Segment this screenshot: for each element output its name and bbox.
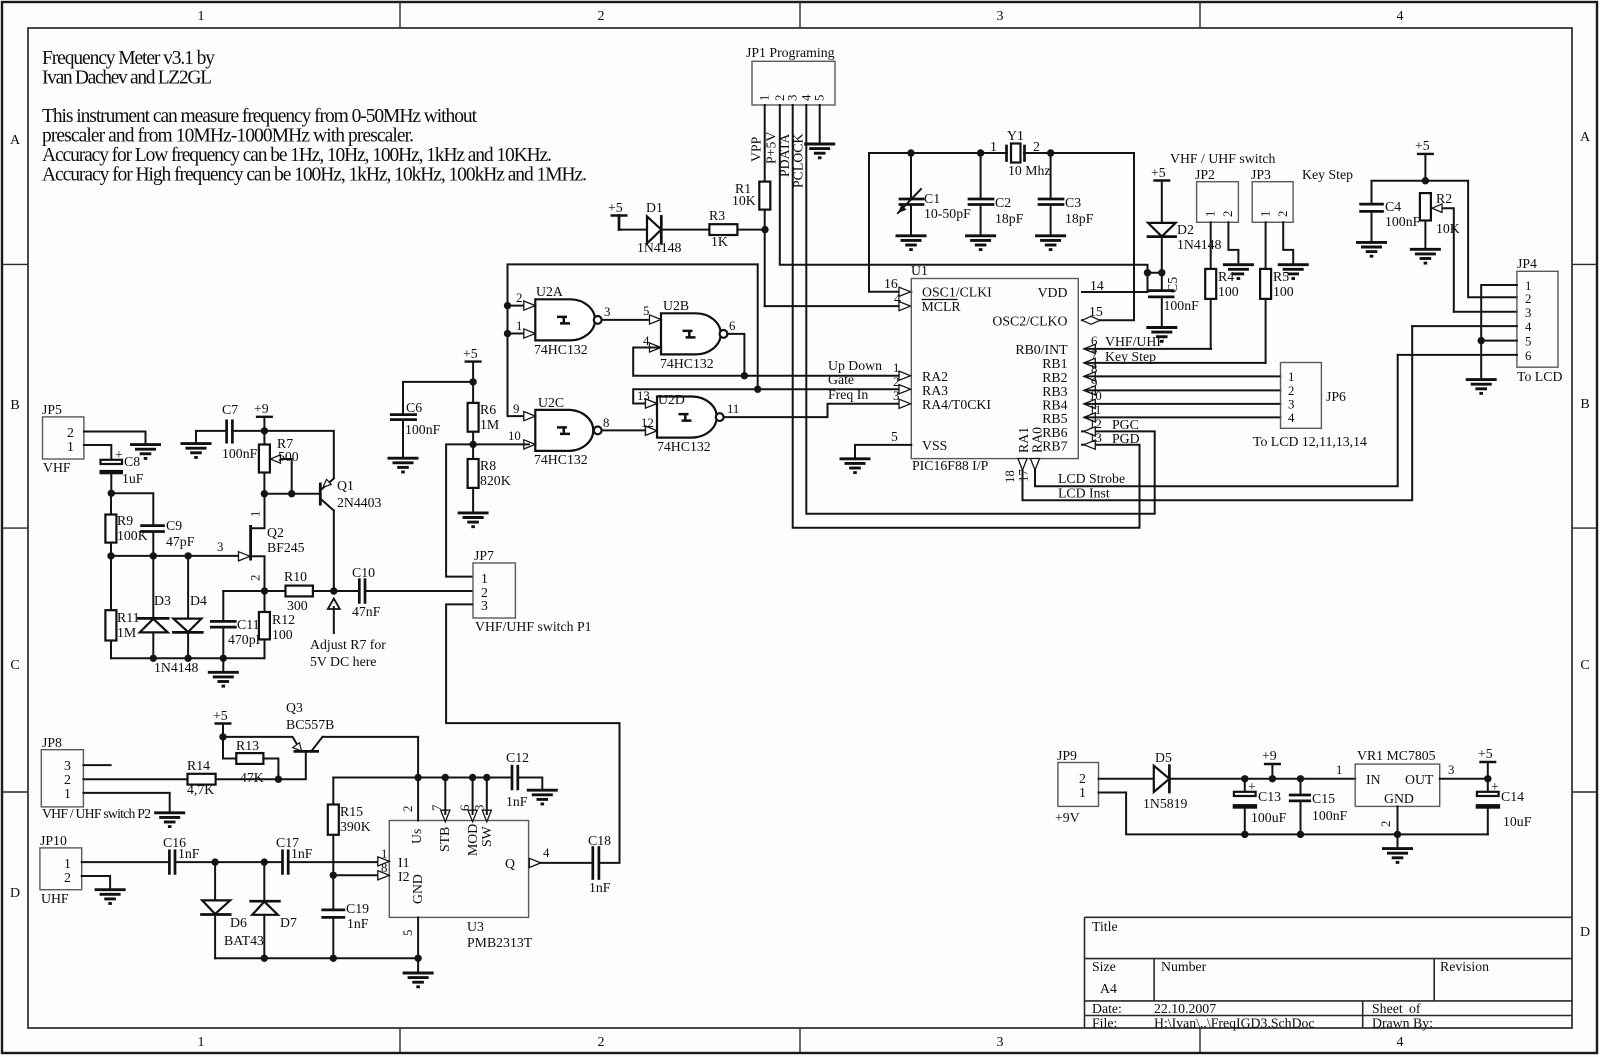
svg-text:R9: R9	[117, 513, 133, 528]
power +5 at R2	[1415, 138, 1434, 181]
wire JP10 pin1 to C16	[82, 861, 170, 863]
svg-text:18: 18	[1003, 470, 1017, 483]
svg-text:A: A	[1580, 130, 1591, 145]
svg-text:4: 4	[1288, 411, 1295, 425]
op-amp U2B 74HC132 NAND gate	[643, 298, 736, 371]
wire R14 node to Q3 base	[278, 753, 305, 780]
svg-text:6: 6	[1091, 334, 1098, 348]
ground at R2	[1410, 249, 1441, 263]
ground at C4	[1356, 242, 1387, 256]
svg-text:U3: U3	[467, 919, 484, 934]
svg-text:11: 11	[1089, 403, 1101, 417]
svg-text:D7: D7	[280, 915, 297, 930]
svg-text:Q: Q	[505, 856, 515, 871]
pin RB3 arrow and wire to JP6 pin2	[1084, 376, 1281, 395]
svg-text:Up Down: Up Down	[828, 358, 882, 373]
svg-text:To LCD 12,11,13,14: To LCD 12,11,13,14	[1253, 434, 1367, 449]
svg-text:VHF/UHF: VHF/UHF	[1105, 334, 1164, 349]
svg-text:A4: A4	[1100, 981, 1117, 996]
svg-text:RA2: RA2	[922, 369, 948, 384]
diode D3 1N4148	[138, 556, 171, 658]
svg-text:C1: C1	[924, 191, 940, 206]
svg-text:1uF: 1uF	[122, 471, 144, 486]
svg-text:9: 9	[513, 402, 519, 416]
svg-text:2: 2	[1276, 211, 1290, 217]
diode D6 BAT43	[202, 862, 264, 958]
svg-text:1N4148: 1N4148	[637, 240, 682, 255]
wire I2 from R15 node to U3	[333, 847, 387, 875]
wire U2A output to U2B pin5	[602, 304, 654, 320]
zone letters left	[10, 133, 21, 901]
svg-text:3: 3	[481, 598, 488, 613]
node R6 R8 junction	[469, 441, 476, 448]
svg-text:R2: R2	[1436, 191, 1452, 206]
svg-text:3: 3	[997, 1035, 1004, 1050]
svg-text:VHF: VHF	[43, 460, 71, 475]
resistor R13 47K	[223, 737, 278, 785]
ground at C5	[1146, 328, 1177, 342]
svg-text:Gate: Gate	[828, 372, 854, 387]
node C8 bottom junction	[108, 490, 115, 497]
resistor R7 500 potentiometer	[259, 431, 299, 494]
svg-text:Drawn By:: Drawn By:	[1372, 1016, 1433, 1031]
svg-text:Accuracy for Low frequency can: Accuracy for Low frequency can be 1Hz, 1…	[42, 145, 552, 166]
svg-text:47nF: 47nF	[352, 604, 381, 619]
wire SW pin3 to rail	[486, 778, 488, 815]
svg-text:C11: C11	[237, 617, 260, 632]
svg-text:1N4148: 1N4148	[154, 660, 199, 675]
svg-text:1: 1	[1336, 763, 1342, 777]
connector JP6 To LCD 12,11,13,14	[1253, 363, 1367, 450]
wire U2B feedback output 6 to pin4 and Up Down to RA2	[633, 334, 910, 380]
capacitor C4 100nF	[1361, 199, 1421, 242]
ground at C6	[388, 458, 419, 472]
svg-text:VHF / UHF switch: VHF / UHF switch	[1170, 151, 1276, 166]
ground at C2	[965, 236, 996, 250]
svg-text:R4: R4	[1218, 269, 1234, 284]
svg-text:2: 2	[64, 772, 71, 787]
op-amp U3 PMB2313T prescaler	[378, 804, 541, 950]
adjust arrow annotation	[310, 599, 386, 670]
wire U3 supply rail	[333, 774, 512, 781]
wire JP3 pin1 to R5	[1265, 222, 1267, 269]
node MCLR junction dot	[761, 226, 768, 233]
svg-text:R14: R14	[187, 758, 210, 773]
svg-text:D4: D4	[190, 593, 207, 608]
wire R6 R8 node to U2C pin10	[473, 443, 529, 445]
svg-text:+5: +5	[213, 708, 228, 723]
svg-text:Ivan Dachev and LZ2GL: Ivan Dachev and LZ2GL	[42, 68, 212, 89]
svg-text:2N4403: 2N4403	[337, 495, 382, 510]
svg-text:C4: C4	[1385, 199, 1401, 214]
wire U3 Q output pin4 to C18	[540, 846, 593, 863]
svg-text:2: 2	[773, 95, 787, 101]
wire PSU bottom rail	[1099, 793, 1488, 849]
svg-text:2: 2	[1525, 292, 1531, 306]
svg-text:1: 1	[198, 9, 205, 24]
svg-text:Us: Us	[409, 829, 424, 844]
svg-text:4: 4	[643, 334, 650, 348]
svg-text:Accuracy for High frequency ca: Accuracy for High frequency can be 100Hz…	[42, 165, 587, 186]
svg-text:D3: D3	[154, 593, 171, 608]
svg-text:+: +	[1491, 779, 1499, 794]
svg-text:+5: +5	[1415, 138, 1430, 153]
node R13 R14 junction	[275, 776, 282, 783]
svg-text:2: 2	[64, 870, 71, 885]
wire U2D output 11 Freq In to RA4	[724, 387, 910, 417]
svg-text:R8: R8	[480, 458, 496, 473]
svg-text:1: 1	[1079, 785, 1086, 800]
ground at JP4	[1466, 380, 1497, 394]
diode D4 1N4148	[154, 556, 207, 675]
wire crystal rail and OSC1 loop	[869, 153, 1134, 320]
wire D2 cathode to +5V node	[1161, 237, 1163, 273]
wire U3 GND pin5 to ground rail	[417, 917, 419, 958]
svg-text:6: 6	[458, 804, 472, 811]
resistor R6 1M	[468, 382, 500, 445]
svg-text:D2: D2	[1177, 222, 1194, 237]
node D6 junction	[211, 858, 218, 865]
svg-text:GND: GND	[410, 874, 425, 904]
wire Gate net to RA3 and U2D pin13	[633, 264, 910, 408]
ground at C1	[896, 236, 927, 250]
svg-text:U2D: U2D	[658, 392, 685, 407]
wire U2C output 8 to U2D pin12	[602, 416, 657, 435]
svg-text:C8: C8	[124, 454, 140, 469]
wire STB pin7 to rail	[444, 778, 446, 815]
diode D7 BAT43	[251, 862, 297, 958]
svg-text:VSS: VSS	[922, 438, 947, 453]
svg-text:Date:: Date:	[1092, 1001, 1122, 1016]
svg-text:10: 10	[1089, 389, 1102, 403]
svg-text:VDD: VDD	[1038, 285, 1068, 300]
svg-text:RA3: RA3	[922, 383, 948, 398]
zone numbers top	[198, 9, 1404, 24]
node +5 Q3 junction	[219, 733, 226, 740]
node crystal rail junction C1	[907, 149, 914, 156]
svg-text:prescaler and from 10MHz-1000M: prescaler and from 10MHz-1000MHz with pr…	[42, 126, 414, 147]
svg-text:I1: I1	[398, 855, 410, 870]
svg-text:11: 11	[727, 402, 739, 416]
svg-text:RB5: RB5	[1042, 411, 1067, 426]
svg-text:Frequency Meter v3.1 by: Frequency Meter v3.1 by	[42, 48, 215, 69]
svg-text:1: 1	[516, 319, 522, 333]
svg-text:C5: C5	[1165, 277, 1180, 293]
power +5 at Q3	[213, 708, 232, 737]
node C10 junction	[330, 587, 337, 594]
wire +5 node to C4	[1372, 181, 1426, 204]
svg-text:UHF: UHF	[41, 891, 69, 906]
svg-text:JP9: JP9	[1057, 748, 1077, 763]
connector JP9 +9V input	[1055, 748, 1099, 825]
svg-text:1: 1	[1259, 211, 1273, 217]
svg-text:2: 2	[893, 375, 899, 389]
wire JP2 pin2 to ground	[1228, 222, 1238, 264]
svg-text:3: 3	[1288, 398, 1294, 412]
pin RA0 pin17 arrow	[1017, 459, 1040, 483]
ground at JP3 pin2	[1278, 265, 1309, 279]
svg-text:1nF: 1nF	[589, 880, 611, 895]
power +9 at C7	[254, 401, 273, 431]
svg-text:100nF: 100nF	[1385, 214, 1421, 229]
zone numbers bottom	[198, 1035, 1404, 1050]
svg-text:3: 3	[893, 389, 899, 403]
svg-text:D: D	[1580, 925, 1590, 940]
svg-text:10-50pF: 10-50pF	[924, 206, 971, 221]
diode D2 1N4148	[1148, 222, 1222, 252]
svg-text:LCD Inst: LCD Inst	[1058, 486, 1110, 501]
svg-text:100: 100	[1273, 284, 1294, 299]
svg-text:PCLOCK: PCLOCK	[791, 134, 806, 188]
svg-text:2: 2	[598, 1035, 605, 1050]
node crystal rail junction C3	[1047, 149, 1054, 156]
svg-text:2: 2	[1288, 384, 1294, 398]
svg-text:100: 100	[272, 627, 293, 642]
wire gate net from RA3 line to U2A inputs and U2C pin9	[508, 264, 758, 416]
wire LCD Inst from RA1 to JP4 pin4	[1023, 326, 1413, 500]
svg-text:1: 1	[1288, 370, 1294, 384]
connector JP7 VHF/UHF switch P1	[473, 548, 592, 634]
crystal Y1 10 Mhz	[990, 128, 1051, 178]
svg-text:MCLR: MCLR	[922, 299, 962, 314]
svg-text:R12: R12	[272, 612, 295, 627]
wire D6 node to D7 node	[215, 858, 268, 865]
capacitor C3 18pF	[1039, 153, 1094, 236]
svg-text:Y1: Y1	[1007, 128, 1024, 143]
ground at VSS	[840, 459, 871, 473]
svg-text:5: 5	[401, 930, 415, 936]
node R15 I2 junction	[330, 872, 337, 879]
svg-text:4: 4	[1525, 320, 1532, 334]
op-amp U2C 74HC132 NAND gate	[508, 395, 609, 467]
resistor R8 820K	[468, 444, 511, 513]
capacitor C9 47pF	[142, 518, 195, 556]
transistor Q2 BF245 JFET	[249, 494, 305, 591]
svg-text:STB: STB	[437, 827, 452, 852]
svg-text:Key Step: Key Step	[1302, 167, 1353, 182]
svg-text:2: 2	[67, 425, 74, 440]
resistor R2 10K potentiometer	[1420, 191, 1460, 312]
wire JP1 pin4 PCLOCK down and right to RB6 PGC	[791, 105, 1155, 514]
svg-text:RB2: RB2	[1042, 370, 1067, 385]
ground at JP8 pin1	[154, 813, 185, 827]
node +5V VDD junction dots	[1144, 269, 1166, 276]
svg-text:16: 16	[884, 276, 898, 291]
capacitor C2 18pF	[969, 153, 1024, 236]
border zone ticks left	[2, 264, 28, 792]
resistor R4 100	[1205, 269, 1239, 349]
wire R1 bottom to MCLR junction	[737, 210, 764, 307]
svg-text:LCD Strobe: LCD Strobe	[1058, 471, 1125, 486]
svg-text:3: 3	[473, 805, 487, 811]
svg-text:4: 4	[1397, 9, 1404, 24]
svg-text:+5: +5	[1478, 746, 1493, 761]
capacitor C19 1nF	[323, 875, 369, 958]
svg-text:10K: 10K	[1436, 221, 1460, 236]
svg-text:GND: GND	[1384, 791, 1414, 806]
svg-text:7: 7	[430, 804, 444, 811]
svg-text:A: A	[10, 133, 21, 148]
svg-text:Size: Size	[1092, 959, 1116, 974]
border zone ticks bottom	[400, 1028, 1200, 1053]
op-amp U2D 74HC132 NAND gate	[646, 392, 724, 454]
svg-text:1nF: 1nF	[291, 846, 313, 861]
svg-text:2: 2	[249, 575, 263, 581]
resistor R14 4,7K	[187, 758, 278, 797]
svg-text:C13: C13	[1258, 789, 1281, 804]
resistor R1 10K	[732, 181, 770, 210]
svg-text:+5: +5	[463, 346, 478, 361]
svg-text:2: 2	[401, 806, 415, 812]
svg-text:C: C	[10, 658, 19, 673]
svg-text:+: +	[1248, 779, 1256, 794]
connector JP1 Programing	[746, 45, 835, 105]
svg-text:Key Step: Key Step	[1105, 349, 1156, 364]
svg-text:3: 3	[64, 758, 71, 773]
svg-text:74HC132: 74HC132	[534, 342, 588, 357]
wire JP4 pin1 and pin5 ground vertical	[1478, 285, 1517, 380]
svg-text:1N4148: 1N4148	[1177, 237, 1222, 252]
capacitor C8 1uF polarized	[100, 447, 144, 493]
svg-text:15: 15	[1089, 304, 1103, 319]
svg-text:3: 3	[604, 305, 610, 319]
svg-text:R10: R10	[284, 569, 307, 584]
wire node 3 line to Q2 gate	[107, 540, 250, 561]
wire VSS pin5 to ground	[855, 429, 911, 459]
svg-text:Q1: Q1	[337, 478, 354, 493]
svg-text:H:\Ivan\..\FreqIGD3.SchDoc: H:\Ivan\..\FreqIGD3.SchDoc	[1154, 1016, 1315, 1031]
wire +5 node to JP4 pin2	[1425, 181, 1517, 298]
svg-text:1: 1	[198, 1035, 205, 1050]
svg-text:Title: Title	[1092, 919, 1118, 934]
svg-text:4: 4	[543, 846, 550, 860]
wire JP1 pin3 PDATA down and right to RB7 PGD	[777, 105, 1140, 528]
svg-text:R6: R6	[480, 402, 496, 417]
ground at C3	[1035, 236, 1066, 250]
capacitor C15 100nF	[1290, 779, 1347, 835]
svg-text:B: B	[10, 398, 19, 413]
power +9 at VR1	[1262, 748, 1281, 779]
diode D1 1N4148	[637, 200, 682, 255]
wire Q1 base node	[261, 490, 319, 497]
wire U3 bottom ground rail	[215, 955, 422, 973]
ground at U3	[403, 973, 434, 987]
diode D5 1N5819	[1143, 750, 1188, 811]
svg-text:PGD: PGD	[1112, 431, 1140, 446]
svg-text:D5: D5	[1155, 750, 1172, 765]
connector JP8 VHF/UHF switch P2	[41, 735, 151, 821]
svg-text:1N5819: 1N5819	[1143, 796, 1188, 811]
svg-text:5: 5	[813, 95, 827, 101]
wire JP8 pin2 to R14	[83, 778, 187, 780]
svg-text:BC557B: BC557B	[286, 717, 334, 732]
svg-text:820K: 820K	[480, 473, 511, 488]
svg-text:D: D	[10, 886, 20, 901]
svg-text:10K: 10K	[732, 193, 756, 208]
border zone ticks top	[400, 2, 1200, 28]
svg-text:5: 5	[643, 304, 649, 318]
wire JP7 pin3 net to C18	[446, 604, 619, 863]
transistor Q3 BC557B PNP	[223, 700, 334, 751]
power +5 at D1	[608, 200, 628, 230]
svg-text:U2C: U2C	[538, 395, 564, 410]
pin RB1 arrow and wire to R5	[1084, 348, 1266, 368]
svg-text:1: 1	[249, 511, 263, 517]
svg-text:1nF: 1nF	[347, 916, 369, 931]
svg-text:2: 2	[1033, 139, 1040, 154]
svg-text:+5: +5	[608, 200, 623, 215]
svg-text:Sheet: Sheet	[1372, 1001, 1403, 1016]
svg-text:2: 2	[1079, 771, 1086, 786]
svg-text:BAT43: BAT43	[224, 933, 264, 948]
transistor Q1 2N4403 PNP	[320, 478, 381, 511]
connector JP3 Key Step	[1251, 167, 1353, 222]
svg-text:5: 5	[891, 429, 898, 444]
svg-text:9: 9	[1091, 376, 1097, 390]
capacitor C13 100uF polarized	[1233, 779, 1287, 835]
pin RB4 arrow and wire to JP6 pin3	[1084, 389, 1281, 409]
wire JP1 pin1 VPP to R1	[749, 105, 765, 182]
wire VR1 out to +5	[1440, 763, 1492, 783]
svg-text:U1: U1	[911, 263, 928, 278]
node crystal rail junction C2	[977, 149, 984, 156]
ground at C12	[527, 790, 558, 804]
svg-text:R5: R5	[1273, 269, 1289, 284]
svg-text:C14: C14	[1501, 789, 1524, 804]
resistor R12 100	[259, 591, 295, 658]
wire MOD pin6 to rail	[472, 778, 474, 815]
svg-text:VPP: VPP	[749, 136, 764, 162]
resistor R9 100K	[105, 493, 147, 556]
resistor R3 1K	[709, 208, 737, 249]
svg-text:14: 14	[1090, 278, 1104, 293]
svg-text:C15: C15	[1312, 791, 1335, 806]
svg-text:18pF: 18pF	[1065, 211, 1094, 226]
svg-text:74HC132: 74HC132	[534, 452, 588, 467]
svg-text:1nF: 1nF	[506, 794, 528, 809]
svg-text:VHF / UHF switch P2: VHF / UHF switch P2	[42, 806, 151, 821]
svg-text:100nF: 100nF	[1312, 808, 1348, 823]
svg-text:8: 8	[1091, 362, 1097, 376]
svg-text:D6: D6	[230, 915, 247, 930]
wire JP1 pin5 to ground	[819, 105, 821, 144]
svg-text:1: 1	[758, 95, 772, 101]
connector JP4 To LCD	[1517, 256, 1563, 384]
pin RB5 arrow and wire to JP6 pin4	[1084, 403, 1281, 422]
svg-text:C18: C18	[588, 833, 611, 848]
capacitor C5 100nF	[1149, 273, 1199, 328]
svg-text:C: C	[1580, 658, 1589, 673]
svg-text:3: 3	[1448, 763, 1454, 777]
svg-text:8: 8	[603, 416, 609, 430]
svg-text:OSC1/CLKI: OSC1/CLKI	[922, 285, 992, 300]
wire VR1 GND pin2 to rail	[1379, 806, 1398, 834]
svg-text:3: 3	[997, 9, 1004, 24]
svg-text:100uF: 100uF	[1251, 810, 1287, 825]
op-amp VR1 MC7805 regulator	[1355, 748, 1440, 806]
wire JP5 pin1 to C8	[84, 445, 111, 460]
svg-text:U2B: U2B	[663, 298, 689, 313]
wire JP10 pin2 to ground	[82, 876, 110, 890]
power +5 at C14	[1478, 746, 1496, 779]
svg-text:U2A: U2A	[536, 284, 563, 299]
wire JP8 pin1 to ground	[83, 793, 169, 813]
svg-text:PMB2313T: PMB2313T	[467, 935, 533, 950]
svg-text:+9: +9	[1262, 748, 1277, 763]
ground at VR1	[1382, 849, 1413, 863]
svg-text:1K: 1K	[711, 234, 728, 249]
svg-text:2: 2	[1221, 211, 1235, 217]
